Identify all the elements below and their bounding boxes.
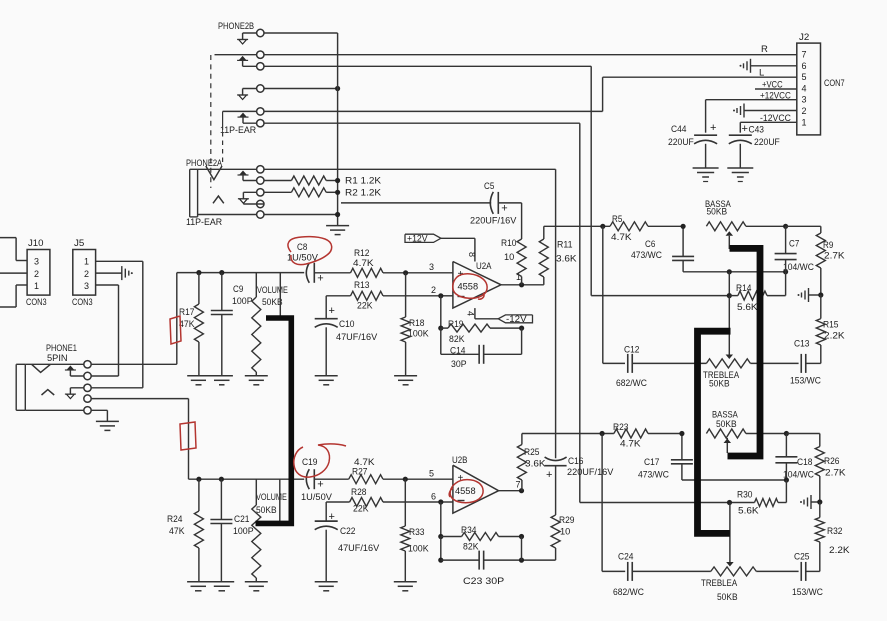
svg-text:+: + [317,479,323,491]
wire PHONE1 row1 to upper rail [91,273,177,365]
ground under C22 [315,582,338,591]
svg-text:50KB: 50KB [716,419,737,430]
connector J10 CON3 [26,238,50,308]
red annotation rectangle on lower wire [180,422,196,450]
chassis ground at R9/R15 node [798,288,824,302]
svg-text:+: + [710,122,716,134]
svg-text:1: 1 [802,117,807,127]
wire J2 pin1 -12VCC to C43 [740,113,797,133]
svg-text:2.7K: 2.7K [825,468,846,479]
wire C24 line [602,570,625,572]
resistor R11 3.6K [539,226,577,284]
svg-text:50KB: 50KB [256,505,277,516]
svg-text:100K: 100K [408,329,429,340]
wire J5 pin2 to chassis ground [96,266,133,280]
red annotation circle around U2B 4558 [449,480,483,503]
resistor R2 1.2K [264,188,382,199]
ground under R24 C21 [187,582,234,591]
connector PHONE2A jack [186,158,264,228]
resistor R18 100K [401,273,429,376]
wire J5 pin3 to PHONE1 row2 [96,285,119,376]
svg-text:82K: 82K [463,542,479,553]
wire pin2 line [431,285,453,298]
svg-text:2.2K: 2.2K [824,331,845,342]
svg-text:2.2K: 2.2K [829,545,850,556]
resistor R10 10 [501,203,526,285]
svg-text:220UF/16V: 220UF/16V [567,467,614,478]
capacitor C6 473/WC [631,224,694,272]
wire J10 pin1 exit [0,285,27,307]
resistor R17 47K [179,273,203,376]
wire pin5 line [403,469,453,482]
svg-text:50KB: 50KB [707,207,728,218]
svg-text:7: 7 [802,50,807,60]
resistor R1 1.2K [264,176,382,187]
wire node A vertical x591 (row3 down to R14 line) [591,66,729,295]
ground under R33 [394,582,417,591]
svg-text:R26: R26 [824,456,840,467]
potentiometer BASSA 50KB upper [705,199,821,249]
svg-text:R11: R11 [557,240,573,251]
potentiometer BASSA 50KB lower [706,410,819,454]
svg-text:R32: R32 [827,526,843,537]
capacitor C12 682/WC [616,345,706,390]
svg-text:C16: C16 [568,456,584,467]
svg-text:C5: C5 [484,181,494,192]
resistor R14 5.6K [729,272,785,313]
svg-text:5.6K: 5.6K [737,302,758,313]
svg-text:C44: C44 [671,124,687,135]
svg-text:TREBLEA: TREBLEA [701,578,738,589]
wire PHONE1 row2 [91,375,118,377]
svg-text:+: + [329,305,335,317]
svg-text:3: 3 [802,95,807,105]
svg-text:7: 7 [516,480,521,490]
svg-text:+: + [329,511,335,523]
wire vertical x556 (PHONE2A row1 down to C16) [555,169,557,458]
svg-text:J5: J5 [74,238,84,249]
svg-text:C23 30P: C23 30P [463,576,504,587]
resistor R19 82K [438,296,524,345]
resistor R9 2.7K [816,226,845,295]
svg-text:R33: R33 [409,527,425,538]
connector PHONE1 5PIN jack [16,343,91,414]
ground under C43 [727,168,753,182]
capacitor C23 30P [438,537,555,588]
svg-text:C18: C18 [797,457,813,468]
capacitor C9 100P [211,273,253,376]
resistor R12 4.7K [314,248,405,277]
svg-text:3: 3 [429,262,434,272]
svg-text:CON7: CON7 [824,78,845,89]
wire L channel row (to x602 vertical) [264,110,603,112]
wire bus vertical [337,33,339,226]
wire PHONE1 row3 [91,387,143,389]
svg-text:8: 8 [467,252,477,257]
ground under C44 [693,168,719,182]
connector J5 CON3 [72,238,96,308]
resistor R29 10 [551,515,574,560]
red annotation rectangle on upper wire [170,316,181,344]
wire J2 pin2 to chassis ground [733,104,797,118]
svg-text:5: 5 [802,72,807,82]
red annotation circle around U2A 4558 [453,274,487,299]
connector PHONE2B jack contacts and pins [215,21,264,136]
wire C12 line [603,362,625,364]
svg-text:50KB: 50KB [717,592,738,603]
wire C5 line [341,202,491,204]
wire U2B output pin 7 [499,480,525,494]
svg-text:R13: R13 [354,280,370,291]
resistor R30 5.6K [727,480,787,517]
capacitor C13 153/WC [790,339,821,387]
svg-text:R30: R30 [737,490,753,501]
svg-text:PHONE2A: PHONE2A [186,158,223,169]
resistor R13 22K [326,280,441,312]
capacitor C10 47UF/16V [315,296,378,376]
svg-text:153/WC: 153/WC [792,587,823,598]
svg-text:2: 2 [802,106,807,116]
wire R channel row to J2 pin7 [264,54,797,56]
svg-text:47K: 47K [169,526,185,537]
potentiometer TREBLEA 50KB upper [703,296,799,390]
svg-text:100P: 100P [232,296,253,307]
svg-text:11P-EAR: 11P-EAR [220,125,256,136]
svg-text:R: R [761,44,768,55]
svg-text:2.7K: 2.7K [824,251,845,262]
wire J2 pin3 +12VCC to C44 [706,90,797,132]
svg-text:682/WC: 682/WC [613,587,644,598]
wire PHONE1 row4 to lower rail [91,399,188,480]
resistor R24 47K [167,479,203,582]
svg-text:C21: C21 [234,514,250,525]
svg-text:R1 1.2K: R1 1.2K [345,176,382,187]
wire J10 pin2 exit [0,272,27,274]
ground under C10 [315,376,338,385]
wire vertical x602 down to C12 line [602,226,604,363]
power -12V flag to pin 4 [466,308,533,324]
svg-text:3.6K: 3.6K [556,254,577,265]
ground PHONE1 [96,421,119,430]
capacitor C5 220UF/16V [470,181,522,227]
resistor R33 100K [401,479,429,582]
thick annotation line bass wipers [728,248,761,456]
svg-text:R18: R18 [409,318,425,329]
svg-text:3: 3 [84,281,89,291]
wire TREBLEA lower wiper [726,503,734,567]
power +12V flag to pin 8 [405,233,477,261]
svg-text:C25: C25 [794,552,810,563]
svg-text:2: 2 [34,269,39,279]
svg-text:153/WC: 153/WC [790,376,821,387]
wire PHONE2A row5 to bus [264,212,340,217]
potentiometer VOLUME 50KB upper [252,273,288,376]
svg-text:VOLUME: VOLUME [256,492,287,503]
svg-text:C24: C24 [618,552,634,563]
capacitor C7 104/WC [775,226,814,273]
resistor R5 4.7K [610,214,682,243]
svg-text:-12V: -12V [506,314,527,324]
connector J2 CON7 [797,32,845,135]
op-amp U2A 4558 [453,261,501,308]
svg-text:22K: 22K [357,301,373,312]
resistor R26 2.7K [815,434,846,503]
svg-text:5: 5 [429,469,434,479]
svg-text:C9: C9 [233,284,243,295]
resistor R28 22K [326,487,441,515]
svg-text:4: 4 [466,311,476,316]
svg-text:6: 6 [431,492,436,502]
svg-text:C8: C8 [297,242,307,253]
svg-text:5PIN: 5PIN [47,353,68,364]
svg-text:473/WC: 473/WC [631,250,662,261]
svg-text:30P: 30P [451,359,467,370]
thick annotation line upper volume wiper [256,318,292,523]
svg-text:6: 6 [802,61,807,71]
capacitor C24 682/WC [613,552,711,599]
svg-text:C13: C13 [794,339,810,350]
capacitor C44 220UF [668,122,717,168]
svg-text:R17: R17 [179,307,195,318]
svg-text:R10: R10 [501,238,517,249]
svg-text:U2A: U2A [476,261,492,272]
svg-text:C19: C19 [302,457,318,468]
svg-text:4.7K: 4.7K [611,232,632,243]
capacitor C18 104/WC [775,434,814,483]
svg-text:R24: R24 [167,514,183,525]
capacitor C43 220UF [729,123,780,168]
ground under R17 C9 [187,376,233,385]
svg-text:3.6K: 3.6K [525,459,546,470]
svg-text:47K: 47K [179,319,195,330]
svg-text:4: 4 [802,83,807,93]
svg-text:10: 10 [560,527,570,538]
svg-text:C7: C7 [789,239,799,250]
wire upper input rail [177,270,304,275]
svg-text:1: 1 [34,281,39,291]
wire vertical x602 down to C24 line [601,434,603,572]
wire J5 pin1 to PHONE1 row3 [96,261,143,388]
svg-text:2: 2 [84,269,89,279]
wire C8 to R12 [0,0,1,1]
dashed link right of PHONE2B [222,111,224,166]
svg-text:PHONE2B: PHONE2B [218,21,254,32]
wire lower input rail [189,477,305,482]
wire J2 pin6 to chassis ground [740,59,797,73]
wire J2 pin5 L label [603,68,797,112]
wire node B vertical x580 (row6 down to R30 line) [580,123,730,502]
capacitor C16 220UF/16V [545,456,614,515]
capacitor C14 30P [441,328,522,370]
svg-text:+: + [546,469,552,481]
wire PHONE2A row1 (to x556 vertical) [264,168,556,170]
svg-text:CON3: CON3 [72,297,93,308]
svg-text:47UF/16V: 47UF/16V [338,543,380,554]
wire pin3 line [403,262,453,275]
wire C6-C7 mid line [683,269,788,298]
svg-text:C12: C12 [624,345,640,356]
capacitor C19 1U/50V [301,457,333,503]
svg-text:3: 3 [34,257,39,267]
svg-text:R28: R28 [351,487,367,498]
svg-text:J10: J10 [28,238,44,249]
resistor R23 4.7K [613,422,682,450]
potentiometer VOLUME 50KB lower [252,479,287,582]
svg-text:2: 2 [431,285,436,295]
resistor R25 3.6K [517,434,546,491]
svg-text:J2: J2 [799,32,809,43]
ground under VOLUME upper [245,376,268,385]
capacitor C22 47UF/16V [315,502,380,582]
svg-text:C22: C22 [340,526,356,537]
capacitor C21 100P [210,479,253,582]
wire PHONE2A row4 [243,203,264,205]
svg-text:+: + [742,123,748,135]
thick annotation line treble wipers [698,331,731,533]
capacitor C25 153/WC [792,552,823,599]
wire J10 pin3 exit [0,238,27,261]
svg-text:+12V: +12V [407,233,428,243]
svg-text:50KB: 50KB [709,379,730,390]
svg-text:R2 1.2K: R2 1.2K [345,188,382,199]
resistor R32 2.2K [815,502,850,571]
resistor R15 2.2K [816,295,845,363]
svg-text:+: + [458,473,464,484]
wire PHONE1 row5 to ground [91,410,107,421]
svg-text:47UF/16V: 47UF/16V [336,332,378,343]
svg-text:4558: 4558 [455,486,476,497]
svg-text:CON3: CON3 [26,297,47,308]
ground under R18 [394,376,417,385]
red annotation circle around C8 label [288,237,332,265]
wire row6 (to x580 vertical) [264,122,580,124]
ground bus [326,226,349,235]
svg-text:10: 10 [504,252,514,263]
wire J2 pin7 R [761,44,768,55]
wire R23 line [522,431,614,436]
ground under VOLUME lower [245,582,268,591]
capacitor C8 1U/50V [287,242,324,284]
chassis ground at R26/R32 node [800,495,822,509]
svg-text:5.6K: 5.6K [738,506,759,517]
resistor R34 82K [438,502,524,553]
svg-text:C43: C43 [749,125,765,136]
svg-text:4558: 4558 [458,282,479,293]
dashed mechanical link of PHONE2B switch [210,55,212,188]
svg-text:50KB: 50KB [262,297,283,308]
svg-text:VOLUME: VOLUME [257,285,288,296]
red annotation circle around C19 label [294,444,346,477]
wire R5 line [544,224,610,229]
svg-text:+: + [317,272,323,284]
wire PHONE2B row1 to bus [264,32,338,34]
wire J2 pin4 +VCC stub [755,80,797,91]
wire U2A output pin 1 [501,272,544,287]
wire row4 to bus [264,86,340,91]
svg-text:220UF: 220UF [668,137,694,148]
svg-text:100K: 100K [408,544,429,555]
wire row3 (to x591 vertical) [264,65,591,67]
svg-text:+: + [501,202,507,214]
svg-text:220UF: 220UF [754,137,780,148]
resistor R27 4.7K [314,457,405,484]
svg-text:C17: C17 [644,457,660,468]
svg-text:100P: 100P [233,526,254,537]
svg-text:682/WC: 682/WC [616,378,647,389]
svg-text:4.7K: 4.7K [620,439,641,450]
potentiometer TREBLEA 50KB lower [701,567,799,603]
svg-text:11P-EAR: 11P-EAR [186,217,222,228]
svg-text:C10: C10 [339,319,355,330]
capacitor C17 473/WC [638,431,786,481]
svg-text:C6: C6 [645,239,655,250]
svg-text:82K: 82K [449,334,465,345]
svg-text:220UF/16V: 220UF/16V [470,216,517,227]
svg-text:R29: R29 [559,515,575,526]
svg-text:1: 1 [84,257,89,267]
svg-text:U2B: U2B [452,455,468,466]
svg-text:473/WC: 473/WC [638,470,669,481]
wire pin6 line [431,492,453,505]
svg-text:104/WC: 104/WC [783,262,814,273]
op-amp U2B 4558 [452,455,499,513]
